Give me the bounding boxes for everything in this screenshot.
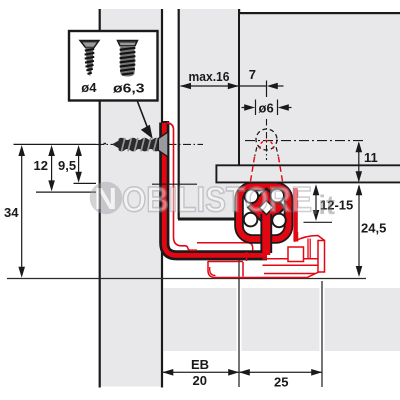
red bracket angle profile (162, 121, 267, 255)
red bracket inner fold line (167, 123, 197, 251)
dimension 9,5 tick line (74, 182, 97, 184)
dimension 12 tick line (36, 191, 96, 193)
hole center line vertical (266, 119, 268, 160)
svg-text:7: 7 (249, 67, 256, 82)
pointer arrow from box to screw (138, 102, 153, 139)
runner roller profile outer square (239, 187, 289, 240)
bottom dimension line EB 20 (162, 357, 322, 390)
svg-text:EB: EB (191, 357, 209, 372)
svg-text:max.16: max.16 (189, 69, 230, 84)
svg-text:9,5: 9,5 (58, 158, 76, 173)
hole cone dashed black left (255, 147, 257, 156)
svg-text:ø6: ø6 (259, 101, 274, 116)
screw axis dash-dot line (96, 143, 203, 145)
watermark (90, 181, 335, 221)
reference line screw axis solid left part (14, 143, 97, 145)
hole cone dashed black right (276, 147, 278, 156)
roller top-right (270, 189, 284, 203)
dimension 9,5 (58, 145, 82, 183)
red runner front top edge line (197, 243, 253, 251)
roller top-left (245, 190, 259, 204)
EB 20 25 extension line middle (237, 255, 242, 387)
reference line y=184 right segment (152, 183, 197, 185)
hole center line horizontal (245, 140, 363, 142)
svg-text:24,5: 24,5 (361, 221, 386, 236)
roller stem (260, 214, 272, 255)
svg-text:12: 12 (34, 158, 48, 173)
svg-text:OBILISTORE: OBILISTORE (122, 181, 312, 220)
dimension 12 (34, 145, 55, 191)
mounting screw in panel (104, 132, 169, 157)
runner base foot left (208, 252, 321, 278)
dimension 11 (356, 141, 378, 182)
screw diameter6,3 in box (113, 41, 145, 96)
svg-text:ø4: ø4 (81, 80, 97, 95)
dimension max.16 (180, 69, 239, 89)
dimension 12-15 (304, 184, 354, 222)
screw box (69, 31, 158, 101)
svg-text:20: 20 (193, 373, 207, 388)
runner base right assembly (263, 232, 325, 274)
svg-text:11: 11 (364, 150, 378, 165)
drawer bottom panel (216, 165, 400, 184)
cabinet side panel (99, 9, 163, 388)
pin cone dashed red left (250, 157, 255, 186)
red vertical strip right of profile (293, 188, 297, 242)
dimension 24,5 (356, 184, 387, 277)
svg-text:34: 34 (4, 205, 19, 220)
dimension 34 (4, 145, 25, 278)
dimension 7 (239, 67, 284, 97)
roller clover red diamond (248, 189, 285, 227)
dimension 34 baseline (7, 278, 366, 280)
drill hole dashed circle (256, 129, 277, 150)
svg-text:.it: .it (311, 190, 335, 220)
lower gray band (164, 288, 400, 351)
svg-text:ø6,3: ø6,3 (113, 81, 145, 96)
pin cone dashed red right (278, 157, 283, 186)
drawer side panel (178, 9, 241, 221)
clover white center diamond (259, 200, 273, 214)
screw diameter4 in box (80, 41, 99, 96)
rear panel (top right gray area) (239, 12, 400, 165)
svg-text:25: 25 (274, 375, 288, 390)
red dashed pin arc (260, 140, 273, 149)
dimension diameter 6 (242, 100, 292, 116)
roller bottom-right (272, 214, 286, 228)
extension line right (320, 281, 325, 387)
roller bottom-left (244, 213, 258, 227)
svg-text:N: N (95, 181, 117, 216)
